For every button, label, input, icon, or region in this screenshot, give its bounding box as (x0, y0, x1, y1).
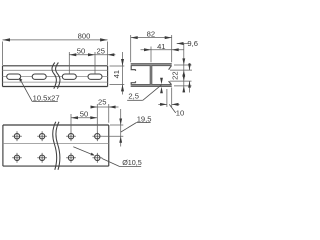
top view break lines (53, 122, 60, 170)
dimension 41 side height bottom arrow (121, 84, 124, 91)
label 10 leader (169, 104, 175, 113)
label 19,5 leader (121, 123, 136, 132)
top view middle line (3, 143, 109, 145)
dimension 10 right arrow (172, 103, 179, 106)
svg-text:10: 10 (176, 108, 184, 117)
dimension 800 left arrow (3, 38, 11, 41)
section middle web edges (150, 66, 152, 85)
svg-text:800: 800 (78, 32, 91, 41)
hole B4 (92, 153, 102, 163)
dimension 50 (side) extension lines (69, 52, 95, 74)
dimension 800 extension lines (3, 42, 108, 66)
svg-text:Ø10,5: Ø10,5 (122, 158, 142, 167)
slot 4 (88, 74, 102, 79)
dimension 25 (top view) right external arrow (109, 106, 116, 109)
dimension 25 (side) line with overshoot (95, 54, 115, 56)
dimension 50 (top view) extension lines (71, 104, 97, 131)
hole B2 (37, 153, 47, 163)
slot 2 (32, 74, 46, 79)
extension line top lip tip (170, 69, 192, 71)
dimension 19,5 up arrow (119, 136, 122, 143)
hole A1 (12, 131, 22, 141)
side view break lines (52, 63, 60, 89)
dimension 25 (side) right external arrow (108, 53, 115, 56)
label 2,5 underline (127, 99, 143, 101)
section bottom flange fill (131, 85, 172, 87)
hole B1 (12, 153, 22, 163)
svg-text:41: 41 (112, 70, 121, 78)
svg-text:82: 82 (147, 29, 155, 38)
dimension 50 (top view) arrows (71, 116, 97, 119)
dimension 82 arrows (131, 36, 172, 39)
side view inner lines (3, 70, 108, 82)
dimension 19,5 line (120, 109, 122, 147)
dimension 22 line (189, 63, 191, 93)
svg-text:50: 50 (77, 46, 85, 55)
svg-text:22: 22 (171, 71, 180, 79)
dimension 25 (top view) extension line right (108, 104, 110, 123)
section bottom-right lip (169, 81, 172, 84)
dimension 22 up arrow (188, 81, 191, 88)
svg-text:50: 50 (80, 110, 88, 119)
dimension 10 line right part (172, 103, 180, 105)
extension line top surface right (174, 64, 192, 66)
extension line bottom surface right (174, 85, 192, 87)
dimension 82 line (131, 37, 172, 39)
section bottom-left lip hook (131, 81, 136, 84)
svg-text:19,5: 19,5 (137, 115, 152, 124)
dimension 82 extension lines (131, 35, 172, 62)
section middle web fill (150, 66, 152, 85)
dimension 50 (side) line (69, 54, 95, 56)
dimension 2,5 thickness up arrow (160, 87, 163, 94)
side view bar outline (3, 66, 108, 87)
dimension 25 (top view) left external arrow (91, 106, 98, 109)
label diameter 10,5 leader (73, 147, 141, 167)
dimension 9,6 down arrow lower (182, 75, 185, 82)
dimension 9,6 up arrow bottom (182, 86, 185, 93)
label 10.5x27 underline (32, 101, 58, 103)
hole B3 (66, 153, 76, 163)
dimension 41 side height line (122, 52, 124, 95)
dimension 9,6 top leader line (177, 43, 189, 45)
dimension 10 extension lines (167, 88, 172, 107)
dimension 41 half-width line (141, 49, 185, 51)
section top-right lip (169, 66, 172, 70)
extension line bottom lip tip (170, 80, 192, 82)
dimension 22 down arrow (188, 64, 191, 71)
label 19,5 underline (136, 122, 150, 124)
svg-text:2,5: 2,5 (128, 92, 139, 101)
section top flange fill (131, 64, 172, 66)
dimension 19,5 extension lines (102, 125, 123, 136)
dimension 41 half-width arrows (144, 48, 179, 51)
dimension 2,5 thickness down arrow (160, 78, 163, 85)
label 10.5x27 leader (20, 80, 32, 102)
slot 1 (7, 74, 21, 79)
dimension 10 left arrow (160, 103, 167, 106)
dimension 41 half-width extension line (150, 47, 152, 63)
hole A3 (66, 131, 76, 141)
dimension 19,5 down arrow (119, 119, 122, 126)
dimension 41 side height extension lines (110, 66, 125, 84)
label diameter 10,5 leader arrow (91, 153, 95, 156)
dimension 9,6 down arrow top (182, 58, 185, 65)
svg-text:9,6: 9,6 (187, 39, 198, 48)
section bottom flange edges (131, 84, 172, 86)
top view outline (3, 125, 109, 166)
dimension 9,6 vertical line (183, 44, 185, 93)
svg-text:41: 41 (157, 42, 165, 51)
dimension 41 side height top arrow (121, 59, 124, 66)
dimension 9,6 up arrow upper (182, 70, 185, 77)
dimension 800 line (3, 39, 108, 41)
svg-text:25: 25 (96, 46, 104, 55)
dimension 10 line left part (158, 103, 167, 105)
dimension 25 (top view) line (91, 106, 119, 108)
dimension 800 right arrow (100, 38, 108, 41)
svg-text:10.5x27: 10.5x27 (33, 94, 60, 103)
hole A2 (37, 131, 47, 141)
label 10.5x27 leader arrow (19, 78, 22, 82)
dimension 50 (top view) line (71, 117, 97, 119)
section top-left lip hook (131, 66, 136, 71)
dimension 9,6 leader arrow (177, 42, 184, 45)
svg-text:25: 25 (98, 98, 106, 107)
slot 3 (62, 74, 76, 79)
dimension 50 (side) arrows (69, 53, 95, 56)
section top flange edges (131, 64, 172, 66)
hole A4 (92, 131, 102, 141)
label 2,5 leader (143, 85, 162, 101)
